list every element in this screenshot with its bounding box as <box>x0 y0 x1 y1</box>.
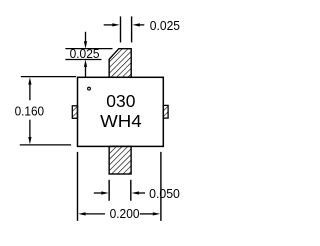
dim left-upper 0.025: down arrow <box>84 32 87 49</box>
dim left 0.160: extension line bottom <box>20 144 71 146</box>
right side tab (hatched) <box>163 105 168 118</box>
svg-text:0.160: 0.160 <box>15 105 44 119</box>
dim top 0.025: extension line A <box>120 16 122 42</box>
dim top 0.025: left arrow <box>104 23 120 26</box>
svg-text:0.025: 0.025 <box>150 19 180 33</box>
dim bottom 0.200: dimension line with arrows <box>78 212 160 215</box>
body outline <box>78 77 164 146</box>
dim bottom-right 0.050: left arrow <box>94 191 109 194</box>
dim bottom-right 0.050: extension line right <box>130 180 132 201</box>
dim top 0.025: right arrow <box>132 23 144 26</box>
dim bottom 0.200: extension line right <box>160 152 162 221</box>
dim left-upper 0.025: extension line top <box>65 48 112 50</box>
dim top 0.025: extension line B <box>131 16 133 42</box>
dim bottom 0.200: extension line left <box>77 152 79 221</box>
dim bottom-right 0.050: extension line left <box>108 180 110 201</box>
dim left-upper 0.025: up arrow <box>84 60 87 78</box>
svg-text:030: 030 <box>106 91 135 111</box>
svg-text:0.025: 0.025 <box>70 47 100 61</box>
svg-text:0.200: 0.200 <box>110 207 140 221</box>
dim left 0.160: dimension line with arrows <box>28 77 31 144</box>
svg-text:0.050: 0.050 <box>149 187 180 201</box>
terminal top (hatched, chamfered) <box>109 49 131 78</box>
pin 1 marker circle <box>88 87 91 90</box>
dim bottom-right 0.050: right arrow <box>132 191 146 194</box>
left side tab (hatched) <box>72 106 77 119</box>
svg-text:WH4: WH4 <box>100 111 142 131</box>
dim left 0.160: extension line top <box>21 76 76 78</box>
dim left-upper 0.025: extension line bottom <box>65 59 101 61</box>
terminal bottom (hatched) <box>109 146 131 174</box>
